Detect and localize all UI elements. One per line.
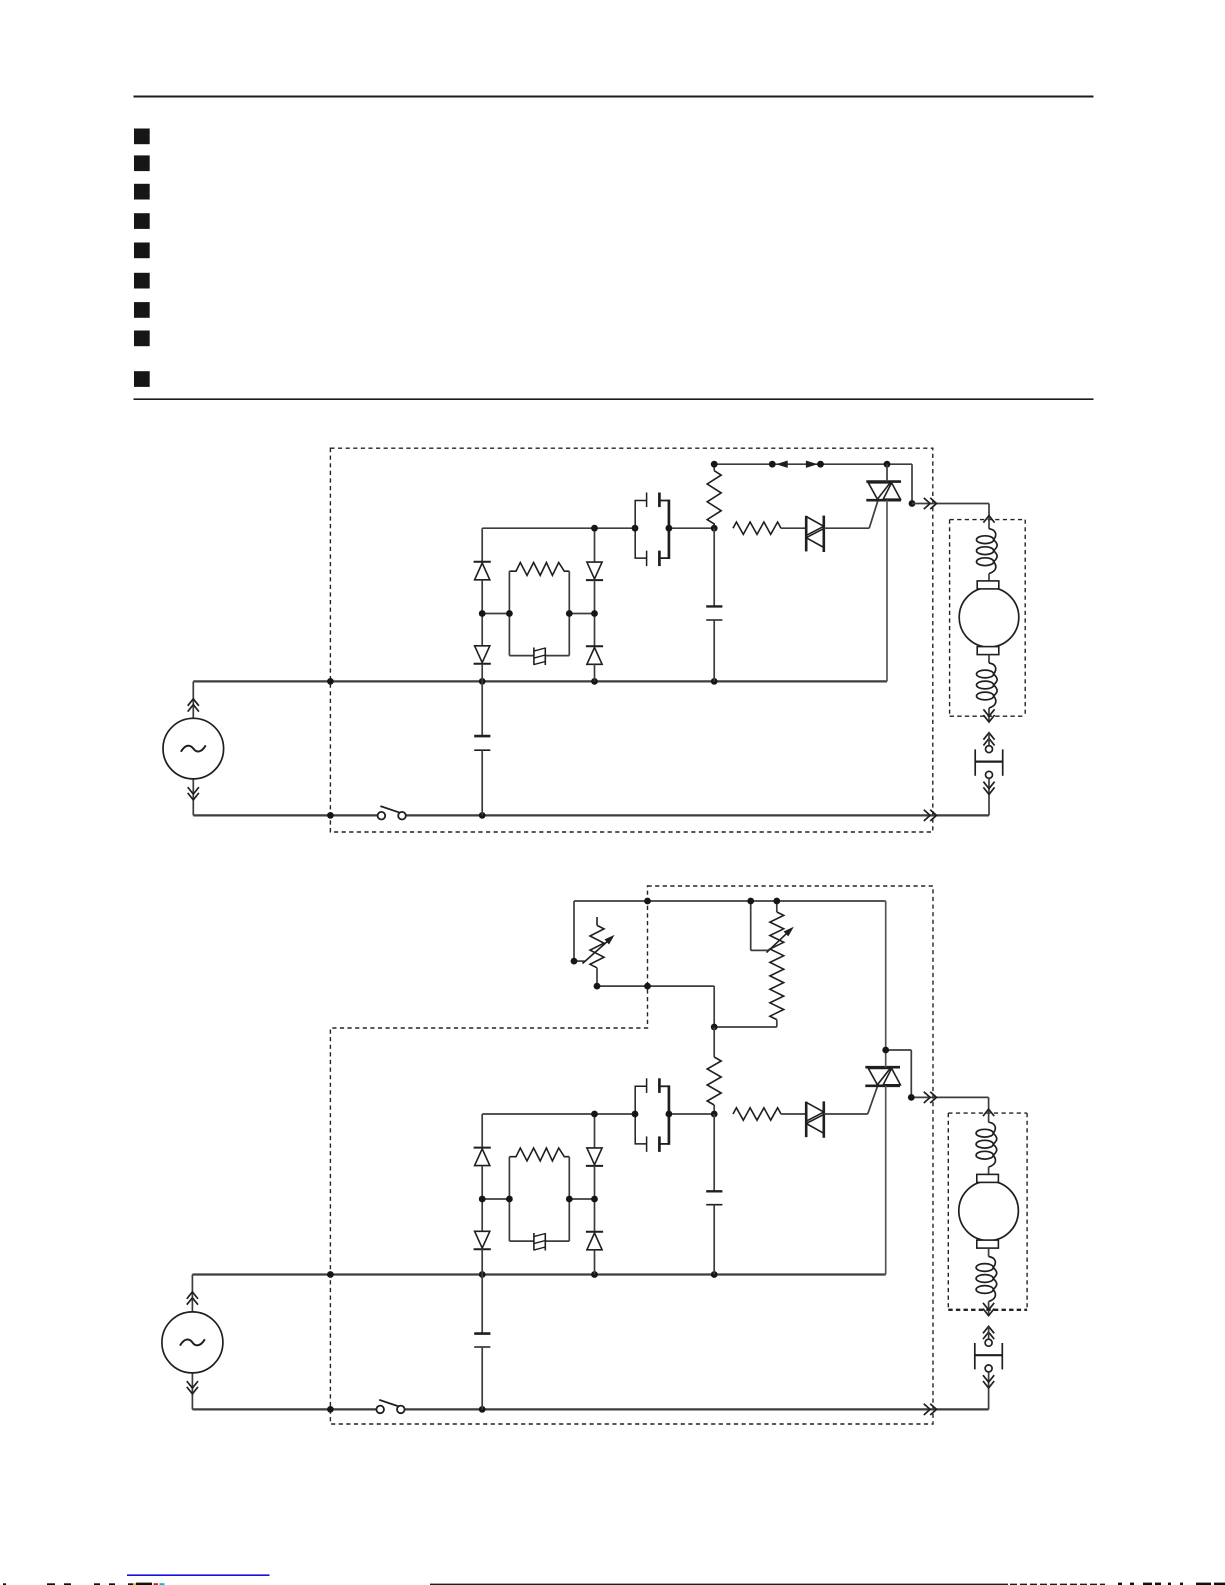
fig1 flow arrows on top wire — [778, 461, 816, 467]
resistor R-bridge (inner box top) — [509, 563, 569, 576]
fig1 resistor R3 (horizontal) — [733, 522, 806, 534]
terminal chevrons (exit pair down) — [983, 1303, 994, 1316]
wire bridge left lower — [481, 1249, 483, 1274]
fig1 wire triac leads — [886, 464, 888, 681]
brush block lower — [977, 1240, 999, 1248]
bullet square 5 — [134, 243, 150, 259]
fig1 filter capacitor C1 — [474, 681, 490, 815]
capacitor pair CP (right bracket) — [659, 1085, 669, 1144]
motor dashed box — [950, 520, 1026, 717]
wire inner box bottom edge — [509, 1240, 569, 1242]
wire bridge right upper — [594, 1114, 596, 1148]
diode D-lower-left — [474, 646, 491, 664]
capacitor pair CP (left bracket) — [635, 1086, 646, 1144]
wire brush to coil — [988, 655, 990, 664]
bullet square 8 — [134, 331, 150, 347]
field coil L-lower — [976, 1257, 997, 1302]
fig2 potentiometer VR1 — [574, 917, 613, 986]
wire bridge mid-right — [569, 1198, 594, 1200]
motor dashed box — [948, 1113, 1027, 1310]
fig1 resistor R2 (vertical) — [707, 464, 721, 528]
fig2 resistor R4 (vertical) — [707, 1027, 721, 1114]
bullet square 2 — [134, 155, 150, 171]
fig2 junction dots pot network — [571, 898, 781, 1031]
terminal chevrons (down pair) — [983, 1375, 994, 1388]
plug contact circle lower — [986, 771, 993, 778]
capacitor pair CP (plates) — [647, 1078, 660, 1152]
fig1 junction dots main row — [327, 678, 718, 685]
field coil L-lower — [977, 663, 998, 708]
fig1 wire diac to gate — [824, 501, 878, 529]
bullet square 6 — [134, 273, 150, 289]
wire chevron to contact — [988, 733, 990, 746]
bullet square 7 — [134, 302, 150, 318]
fig2 wire line2 (bottom) — [192, 1408, 988, 1410]
fig2 wire row2 (bridge top / gate row) — [482, 1113, 714, 1115]
wire inner box right edge — [568, 571, 570, 655]
fig2 wire triac leads — [885, 1050, 887, 1275]
fig2 potentiometer VR2 — [751, 901, 793, 1027]
diode D-upper-right — [586, 1148, 603, 1166]
fig2 resistor R5 (horizontal) — [733, 1108, 806, 1120]
footer rule right — [430, 1583, 1225, 1585]
plug contact circle upper — [986, 746, 993, 753]
fig1 connector chevrons on output wires — [924, 498, 937, 821]
diode D-lower-left — [474, 1231, 491, 1249]
fig2 capacitor C4 (timing) — [706, 1114, 722, 1275]
fig1 motor branch — [988, 503, 990, 505]
bullet square 3 — [134, 184, 150, 200]
terminal chevrons (plug up pair) — [983, 1326, 994, 1339]
capacitor pair CP (plates) — [647, 493, 660, 567]
top rule — [134, 96, 1094, 98]
bullet square 1 — [134, 129, 150, 145]
terminal chevron (entry) — [983, 516, 994, 523]
wire bridge left middle — [481, 580, 483, 646]
field coil L-upper — [977, 529, 998, 574]
terminal chevrons (exit pair down) — [983, 709, 994, 722]
diode D-upper-left — [474, 1148, 491, 1166]
wire chevron to contact — [988, 1326, 990, 1339]
wire bridge left middle — [481, 1166, 483, 1232]
fig1 switch SW1 — [378, 806, 406, 819]
footer blue underline — [127, 1574, 270, 1576]
wire coil to brush — [988, 574, 990, 581]
surge absorber Z (hatched) — [534, 1233, 545, 1251]
fig1 wire line2 (bottom) — [193, 814, 989, 816]
connector P (bars) — [975, 1343, 1003, 1369]
diac triangles — [806, 1102, 824, 1133]
wire inner box bottom edge — [509, 655, 569, 657]
bullet square 4 — [134, 213, 150, 229]
wire bridge mid-left — [482, 1198, 509, 1200]
fig2 wire gate node to output — [886, 1050, 989, 1097]
wire coil to brush — [988, 1167, 990, 1174]
bullet square 9 — [134, 371, 150, 387]
wire inner box right edge — [568, 1157, 570, 1241]
fig1 wire output to motor (top) — [912, 503, 989, 505]
fig2 junction dots row2 — [591, 1111, 718, 1118]
fig2 wire top row (pot bus) — [574, 901, 886, 1050]
wire bridge right upper — [594, 528, 596, 562]
diode D-upper-left — [474, 562, 491, 580]
triac bars — [865, 1067, 900, 1086]
wire bridge mid-right — [569, 613, 594, 615]
connector P (bars) — [975, 749, 1003, 775]
capacitor pair CP (left bracket) — [635, 501, 646, 559]
footer text fragments left — [3, 1583, 165, 1585]
fig2 junction dots output — [882, 1047, 914, 1101]
wire bridge left upper — [481, 1114, 483, 1148]
triac triangles — [868, 1068, 900, 1084]
fig1 controller dashed box — [330, 448, 932, 832]
wire bridge right middle — [594, 1166, 596, 1232]
capacitor pair CP (right bracket) — [659, 500, 669, 559]
fig1 wire line1 (main) — [193, 680, 887, 682]
wire bridge left upper — [481, 528, 483, 562]
wire coil exit — [988, 708, 990, 722]
fig1 junction dots top row — [711, 461, 916, 507]
fig1 wire row2 (bridge top / gate row) — [482, 527, 714, 529]
terminal chevrons (plug up pair) — [983, 733, 994, 746]
wire coil exit — [988, 1302, 990, 1316]
brush block upper — [977, 581, 999, 589]
surge absorber Z (hatched) — [534, 648, 545, 666]
fig2 switch SW2 — [376, 1400, 404, 1413]
wire bridge right middle — [594, 580, 596, 646]
wire motor entry — [988, 504, 990, 529]
wire contact to bottom — [988, 778, 990, 815]
junction dots bridge mid row — [479, 1196, 598, 1203]
wire inner box left edge — [508, 571, 510, 655]
diac triangles — [806, 517, 824, 548]
diac bars — [806, 516, 824, 552]
wire brush to coil — [988, 1248, 990, 1257]
diode D-lower-right — [586, 646, 603, 664]
diode D-lower-right — [586, 1232, 603, 1250]
fig2 filter capacitor C3 — [474, 1275, 490, 1410]
fig1 wire output corner — [988, 503, 990, 505]
terminal chevron (entry) — [983, 1109, 994, 1116]
fig2 AC source G2 — [162, 1275, 223, 1410]
fig2 junction dots bottom row — [327, 1406, 486, 1413]
motor armature M — [959, 588, 1019, 648]
fig2 junction dots main row — [327, 1271, 718, 1278]
fig2 connector chevrons on output wires — [924, 1092, 937, 1415]
fig1 junction dots bottom row — [327, 812, 486, 819]
fig1 AC source G1 — [163, 681, 224, 815]
junction dots bridge mid row — [479, 610, 598, 617]
fig1 capacitor C2 (timing) — [706, 528, 722, 681]
fig1 wire top row — [714, 464, 912, 503]
plug contact circle lower — [985, 1365, 992, 1372]
diac bars — [806, 1101, 824, 1137]
triac triangles — [868, 483, 900, 499]
fig2 controller dashed box (notched) — [330, 886, 933, 1424]
terminal chevrons (down pair) — [983, 782, 994, 795]
fig2 wire VR1 bottom to node — [597, 986, 714, 1027]
brush block upper — [977, 1174, 999, 1182]
triac bars — [866, 482, 901, 501]
wire bridge right lower — [594, 664, 596, 681]
fig2 wire line1 (main) — [192, 1273, 885, 1275]
wire bridge left lower — [481, 664, 483, 682]
wire bridge right lower — [594, 1250, 596, 1275]
wire bridge mid-left — [482, 613, 509, 615]
wire motor entry — [988, 1097, 990, 1122]
brush block lower — [977, 647, 999, 655]
motor armature M — [959, 1181, 1019, 1241]
bottom rule — [134, 398, 1094, 400]
diode D-upper-right — [586, 562, 603, 580]
fig2 wire VR2 bottom — [714, 1026, 777, 1028]
field coil L-upper — [976, 1122, 997, 1167]
fig1 junction dots row2 — [591, 525, 718, 532]
wire inner box left edge — [508, 1157, 510, 1241]
fig2 wire diac to gate — [824, 1086, 878, 1114]
resistor R-bridge (inner box top) — [509, 1148, 569, 1161]
wire contact to bottom — [988, 1372, 990, 1410]
plug contact circle upper — [985, 1339, 992, 1346]
